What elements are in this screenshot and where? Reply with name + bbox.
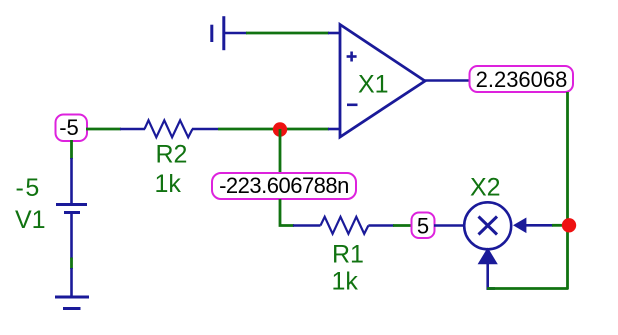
wire op-amp - input lead bbox=[328, 128, 341, 131]
svg-text:2.236068: 2.236068 bbox=[476, 67, 568, 92]
wire battery to ground bbox=[70, 258, 73, 270]
battery V1 bbox=[56, 205, 87, 259]
multiplier X2 bbox=[464, 202, 511, 249]
junction node A (red dot) bbox=[273, 122, 287, 136]
battery B1 (top, +input reference) bbox=[212, 16, 247, 50]
op-amp U1 (X1) bbox=[340, 25, 425, 138]
node label 2.236068 bbox=[470, 66, 574, 92]
wire battery V1 top lead bbox=[70, 158, 73, 204]
resistor R2 bbox=[120, 120, 218, 137]
svg-text:-223.606788n: -223.606788n bbox=[219, 173, 349, 198]
wire R2 to op-amp - input bbox=[218, 128, 329, 131]
svg-text:-5: -5 bbox=[59, 115, 79, 140]
wire junction down to label bbox=[279, 129, 282, 174]
svg-text:1k: 1k bbox=[155, 170, 182, 198]
arrow into X2 bottom input bbox=[478, 248, 498, 265]
resistor R1 bbox=[293, 217, 394, 234]
svg-text:X2: X2 bbox=[470, 174, 501, 202]
wire bottom feedback bbox=[487, 287, 569, 290]
svg-text:R1: R1 bbox=[332, 241, 364, 269]
svg-text:1k: 1k bbox=[332, 268, 359, 296]
arrow into X2 right input bbox=[513, 218, 526, 234]
wire battery to op-amp + input bbox=[246, 32, 329, 35]
wire op-amp + input lead bbox=[328, 32, 341, 35]
wire X2 bottom lead down bbox=[486, 263, 489, 290]
svg-text:5: 5 bbox=[417, 214, 429, 239]
junction node B (red dot) bbox=[562, 218, 576, 232]
wire -5 label to R2 bbox=[86, 128, 121, 131]
wire 5 label to multiplier X2 bbox=[434, 224, 465, 227]
ground bbox=[55, 268, 89, 309]
wire arrow to junction B bbox=[526, 224, 553, 227]
node label -5 (left) bbox=[56, 115, 88, 142]
svg-text:X1: X1 bbox=[358, 71, 389, 99]
svg-text:V1: V1 bbox=[15, 206, 46, 234]
wire op-amp output lead bbox=[424, 79, 470, 82]
svg-text:-5: -5 bbox=[16, 174, 41, 202]
node label 5 bbox=[412, 213, 435, 239]
svg-text:R2: R2 bbox=[156, 141, 188, 169]
wire label down and corner to R1 bbox=[280, 199, 294, 226]
node label -223.606788n bbox=[212, 173, 356, 199]
wire junction B to arrow (green) bbox=[552, 224, 563, 227]
wire R1 to 5 label bbox=[393, 224, 412, 227]
wire -5 label down to battery V1 bbox=[70, 140, 73, 159]
wire output label down to junction bbox=[566, 92, 569, 289]
